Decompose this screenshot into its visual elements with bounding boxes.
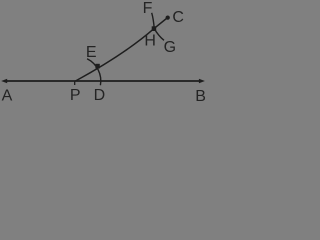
point E (square) [95, 64, 99, 69]
point C (dot) [166, 15, 170, 19]
line AB [4, 80, 202, 82]
ray from P through E and H to C [76, 18, 168, 82]
point H (square) [152, 26, 157, 31]
svg-text:G: G [164, 39, 176, 56]
svg-text:C: C [172, 9, 184, 26]
compass arc H to G [154, 29, 164, 41]
compass arc at P through D and E [87, 59, 101, 86]
svg-text:A: A [2, 87, 13, 103]
svg-text:E: E [86, 44, 97, 61]
svg-text:B: B [195, 88, 206, 103]
svg-text:P: P [70, 87, 81, 103]
svg-text:H: H [144, 32, 156, 49]
tick at P [74, 81, 76, 86]
svg-text:D: D [94, 87, 106, 103]
svg-text:F: F [143, 0, 153, 17]
compass arc F-H-G [152, 13, 155, 29]
arrowhead left (A end) [1, 79, 7, 84]
arrowhead right (B end) [199, 79, 205, 84]
